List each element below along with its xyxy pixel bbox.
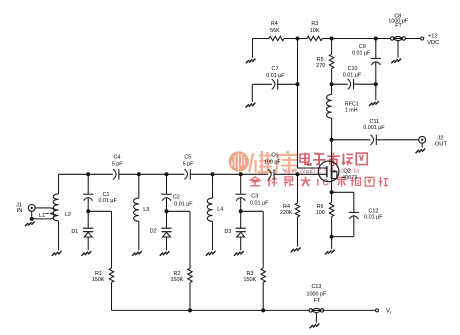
svg-text:OUT: OUT (435, 142, 448, 148)
svg-text:10K: 10K (310, 28, 320, 34)
capacitor C10 0.01uF (332, 83, 348, 85)
svg-text:0.01 µF: 0.01 µF (343, 72, 362, 78)
node C1 bottom (86, 209, 90, 213)
svg-text:5 pF: 5 pF (183, 162, 194, 168)
svg-text:C3: C3 (251, 193, 258, 199)
node L3 top (137, 172, 141, 176)
svg-text:40673: 40673 (342, 175, 357, 181)
svg-text:Q2: Q2 (343, 168, 350, 174)
capacitor C6 100pF (268, 169, 271, 179)
resistor R6 100 (331, 192, 333, 202)
ground top-left (252, 39, 254, 58)
node G1/R4 top (296, 172, 300, 176)
svg-text:0.01 µF: 0.01 µF (266, 73, 285, 79)
resistor R3 150K (262, 211, 264, 268)
resistor R5 270 (331, 39, 333, 55)
svg-text:0.001 µF: 0.001 µF (363, 125, 385, 131)
capacitor C11 0.001uF (332, 139, 371, 141)
watermark logo (229, 151, 249, 171)
svg-text:1 mH: 1 mH (345, 107, 358, 113)
resistor R4 220K (297, 174, 299, 203)
resistor R3 10K (307, 36, 322, 40)
svg-text:IC: IC (317, 178, 333, 188)
ground D2 (160, 251, 170, 256)
svg-text:C10: C10 (348, 66, 358, 72)
svg-text:150K: 150K (244, 277, 257, 283)
ground R4 220K (291, 248, 301, 253)
node C7 bias (296, 82, 300, 86)
wire main rail (59, 173, 114, 175)
svg-text:C5: C5 (184, 154, 191, 160)
ground C9 (375, 84, 377, 100)
node R6 bottom (330, 235, 334, 239)
svg-text:FT: FT (314, 298, 321, 304)
svg-text:C4: C4 (114, 154, 121, 160)
wire C3 to R3 (241, 210, 264, 212)
svg-text:Vt: Vt (386, 308, 392, 315)
node J1 ground (30, 217, 34, 221)
node R5 top (330, 37, 334, 41)
svg-text:220K: 220K (280, 210, 293, 216)
wire tuning bus (112, 309, 311, 311)
node bias divider (296, 37, 300, 41)
ground L3 (132, 251, 142, 256)
svg-text:C9: C9 (359, 44, 366, 50)
terminal +12 VDC (421, 37, 424, 40)
capacitor C1 0.01uF (87, 174, 89, 194)
svg-text:150K: 150K (171, 277, 184, 283)
capacitor C5 5pF (184, 169, 187, 179)
svg-text:0.01 µF: 0.01 µF (352, 50, 371, 56)
svg-text:0.01 µF: 0.01 µF (250, 201, 269, 207)
svg-text:0.01 µF: 0.01 µF (174, 201, 193, 207)
diode D2 (166, 211, 168, 228)
wire top rail left (253, 38, 270, 40)
ground J1 (31, 211, 33, 220)
ground C7 (251, 84, 253, 102)
svg-text:L1: L1 (39, 213, 45, 219)
node source (330, 190, 334, 194)
node C2 bottom (165, 209, 169, 213)
svg-text:270: 270 (316, 63, 325, 69)
svg-text:FT: FT (395, 23, 402, 29)
wire C8 to +12VDC (405, 38, 420, 40)
diode D3 (240, 211, 242, 228)
inductor L2 (58, 174, 60, 194)
node C3 bottom (239, 209, 243, 213)
ground J2 (421, 143, 423, 147)
watermark text dzscw (300, 153, 367, 167)
svg-text:56K: 56K (270, 28, 280, 34)
ground L4 (206, 251, 216, 256)
wire J1 to L1 (35, 207, 50, 209)
capacitor C9 0.01uF (375, 39, 377, 59)
ground C8 (397, 41, 399, 58)
wire C1 to R1 (88, 210, 111, 212)
capacitor C2 0.01uF (166, 174, 168, 194)
terminal Vt (376, 309, 379, 312)
connector J1 IN (28, 205, 35, 212)
svg-text:VDC: VDC (427, 40, 439, 46)
svg-text:C13: C13 (311, 284, 321, 290)
svg-text:D2: D2 (150, 229, 157, 235)
capacitor C8 1000pF FT (391, 37, 394, 40)
svg-text:R3: R3 (311, 21, 318, 27)
node C9 top (374, 37, 378, 41)
resistor R1 150K (111, 211, 113, 268)
ground C13 (315, 313, 317, 323)
node R5 bottom (330, 82, 334, 86)
capacitor C4 5pF (113, 169, 116, 179)
node C9 bottom (374, 82, 378, 86)
node C3 top (239, 172, 243, 176)
ground L2 (52, 251, 62, 256)
svg-text:L3: L3 (143, 207, 149, 213)
node L4 top (211, 172, 215, 176)
svg-text:J2: J2 (437, 136, 443, 142)
node R3 bus (261, 308, 265, 312)
svg-text:R4: R4 (271, 21, 278, 27)
node drain/C11 (330, 138, 334, 142)
node C1 top (86, 172, 90, 176)
svg-text:100 pF: 100 pF (264, 159, 281, 165)
transistor Q2 40673 (318, 161, 339, 182)
svg-text:C2: C2 (173, 194, 180, 200)
wire L1 return (32, 218, 50, 220)
wire R4 to R3 (284, 38, 307, 40)
svg-text:+12: +12 (428, 34, 438, 40)
svg-text:G2: G2 (307, 162, 313, 167)
svg-text:0.01 µF: 0.01 µF (98, 198, 117, 204)
svg-text:5 pF: 5 pF (112, 162, 123, 168)
connector J2 OUT (419, 136, 426, 143)
ground D3 (234, 251, 244, 256)
capacitor C13 1000pF FT (309, 309, 312, 312)
inductor RFC1 1mH (331, 84, 333, 94)
capacitor C7 0.01uF (252, 83, 272, 85)
capacitor C3 0.01uF (240, 174, 242, 194)
wire R3 to C8 (322, 38, 392, 40)
wire G2 bias line (298, 39, 327, 169)
resistor R2 150K (189, 211, 191, 268)
wire C2 to R2 (167, 210, 191, 212)
svg-text:G1: G1 (306, 169, 312, 174)
watermark text weiku (248, 151, 298, 174)
inductor L3 (138, 174, 140, 198)
svg-text:IN: IN (17, 208, 23, 214)
node R2 bus (188, 308, 192, 312)
ground R6 (331, 237, 333, 249)
svg-text:C6: C6 (271, 152, 278, 158)
svg-text:100: 100 (316, 210, 325, 216)
node C2 top (165, 172, 169, 176)
svg-text:1000 pF: 1000 pF (307, 291, 327, 297)
capacitor C12 0.01uF (332, 191, 354, 193)
svg-text:TM: TM (313, 152, 318, 156)
svg-text:C7: C7 (272, 66, 279, 72)
svg-text:D1: D1 (71, 229, 78, 235)
svg-text:L2: L2 (65, 212, 71, 218)
ground D1 (82, 251, 92, 256)
svg-text:0.01 µF: 0.01 µF (364, 215, 383, 221)
inductor L4 (212, 174, 214, 198)
watermark slogan (250, 177, 310, 187)
wire bus to Vt (322, 309, 375, 311)
inductor L1 (50, 208, 54, 219)
resistor R4 56K (269, 36, 284, 40)
svg-text:150K: 150K (92, 277, 105, 283)
svg-text:L4: L4 (217, 207, 223, 213)
svg-text:D3: D3 (224, 229, 231, 235)
diode D1 (87, 211, 89, 228)
